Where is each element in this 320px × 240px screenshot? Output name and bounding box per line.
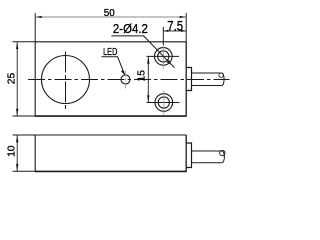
LED vertical centerline [125, 71, 127, 90]
dimension 50 arrow left [35, 16, 42, 18]
mounting hole bottom inner [158, 97, 169, 108]
dimension 50 line [35, 16, 186, 18]
dimension 50 arrow right [180, 16, 187, 18]
dimension 15 arrow bottom [147, 95, 149, 102]
mounting hole top inner [158, 51, 169, 62]
dimension 15 line [147, 56, 149, 102]
vertical centerline of sensing circle [65, 52, 67, 110]
sensing face circle [42, 56, 90, 104]
svg-text:10: 10 [6, 145, 17, 157]
dimension 7.5 extension line [162, 27, 164, 45]
bottom hole vertical centerline [163, 91, 165, 115]
top hole vertical centerline [162, 45, 164, 69]
label 2-Ø4.2 leader underline [111, 36, 174, 68]
dimension 25 extension line bottom [13, 115, 37, 117]
mounting hole bottom outer [155, 94, 173, 112]
dimension 50 extension line right [185, 13, 187, 42]
connector barrel bottom view [192, 151, 223, 163]
dimension 25 line [16, 42, 18, 116]
svg-text:7.5: 7.5 [167, 18, 183, 33]
svg-text:2-Ø4.2: 2-Ø4.2 [113, 22, 148, 36]
label LED leader arrow [121, 70, 125, 75]
top hole horizontal centerline [147, 55, 180, 57]
connector flange top view [186, 68, 192, 91]
barrel end cap top view [222, 73, 224, 86]
dimension 10 arrow bottom [16, 164, 18, 171]
bottom view body outline [35, 135, 186, 171]
dimension 25 arrow bottom [16, 109, 18, 116]
dimension 7.5 arrow left [163, 30, 168, 32]
dimension 7.5 arrow right [181, 30, 186, 32]
mounting hole top outer [155, 48, 173, 66]
svg-text:25: 25 [6, 72, 17, 84]
dimension 15 arrow top [147, 56, 149, 63]
connector barrel top view [192, 73, 222, 86]
dimension 50 extension line left [34, 13, 36, 42]
barrel end cap bottom view [222, 151, 224, 163]
barrel end small circle top view [219, 73, 223, 77]
top view body outline [35, 42, 186, 116]
horizontal axis centerline [28, 79, 230, 81]
bottom hole horizontal centerline [147, 102, 180, 104]
dimension 10 arrow top [16, 135, 18, 142]
label LED leader underline [101, 57, 124, 75]
connector flange bottom view [186, 143, 192, 168]
dimension 25 extension line top [13, 41, 37, 43]
dimension 7.5 line [163, 30, 186, 32]
dimension 10 extension line bottom [13, 170, 37, 172]
barrel end small circle bottom view [220, 150, 225, 155]
svg-text:15: 15 [136, 70, 147, 82]
dimension 10 line [16, 135, 18, 171]
dimension 10 extension line top [13, 134, 37, 136]
label 2-Ø4.2 leader arrow [167, 60, 172, 65]
dimension 25 arrow top [16, 42, 18, 49]
LED indicator circle [121, 75, 130, 84]
svg-text:50: 50 [104, 8, 115, 19]
